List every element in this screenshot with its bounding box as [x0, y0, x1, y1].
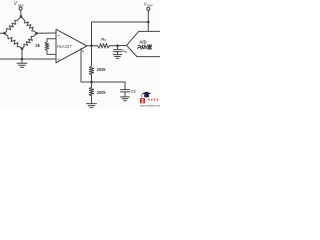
watermark elecfans logo: [140, 92, 161, 108]
svg-text:REF: REF: [147, 3, 153, 7]
node C0 junction: [116, 44, 119, 47]
bridge resistor top-left arm: [5, 17, 22, 34]
label C0: [122, 48, 127, 54]
wire bridge bottom to ground rail: [21, 49, 23, 59]
ground C2: [121, 97, 130, 101]
label VREF right: [144, 1, 154, 7]
pin 5 of U1: [81, 48, 85, 82]
terminal VREF right: [147, 7, 150, 10]
resistor R0: [97, 44, 110, 48]
ground bridge: [17, 59, 27, 67]
label 2k: [35, 43, 40, 48]
capacitor C0: [114, 46, 122, 55]
ground C0: [113, 55, 122, 59]
node VREF rail junction: [147, 21, 150, 24]
svg-text:+: +: [57, 57, 60, 62]
wire R0 to converter input: [110, 45, 127, 47]
svg-text:C2: C2: [131, 89, 137, 94]
label R0: [101, 36, 106, 42]
node output junction: [90, 45, 93, 48]
svg-text:200k: 200k: [97, 90, 107, 95]
wire bridge right to inverting input: [37, 32, 57, 34]
wire ground rail to non-inverting input: [0, 58, 56, 60]
node bridge top: [20, 15, 23, 18]
svg-text:–: –: [57, 32, 60, 38]
label 转换器 (converter): [137, 45, 151, 50]
resistor 200k lower: [89, 82, 93, 104]
node divider junction: [90, 81, 93, 84]
svg-text:200k: 200k: [97, 67, 107, 72]
svg-text:INA337: INA337: [57, 44, 72, 49]
wire VREF right down: [147, 10, 149, 31]
wire VREF to bridge top: [20, 10, 22, 15]
resistor 200k upper: [89, 66, 93, 82]
node bridge bottom: [21, 47, 24, 50]
label C2: [131, 89, 137, 94]
label VREF left: [14, 1, 25, 7]
label 200k upper: [97, 67, 107, 72]
terminal VREF left: [19, 7, 22, 10]
svg-text:www.elecfans.com: www.elecfans.com: [140, 104, 160, 107]
svg-text:2k: 2k: [35, 43, 40, 48]
bridge resistor top-right arm: [21, 17, 37, 34]
A/D converter block: [127, 31, 161, 56]
wire pin5 feedback: [81, 81, 125, 83]
op-amp U1 INA337: [56, 29, 87, 62]
capacitor C2: [121, 90, 130, 97]
svg-text:A/D: A/D: [139, 39, 146, 44]
ground divider: [87, 104, 97, 108]
wire output junction down to divider: [91, 46, 93, 66]
wire output junction up to top rail: [92, 22, 149, 46]
wire amp output: [87, 45, 97, 47]
resistor 2k gain: [45, 39, 56, 55]
bridge resistor bottom-left arm: [5, 33, 23, 48]
node ground rail junction: [21, 58, 24, 61]
label 200k lower: [97, 90, 107, 95]
node bridge left: [0, 32, 6, 35]
bridge resistor bottom-right arm: [22, 33, 37, 48]
wire to C2: [124, 82, 126, 90]
node bridge right: [35, 32, 38, 35]
